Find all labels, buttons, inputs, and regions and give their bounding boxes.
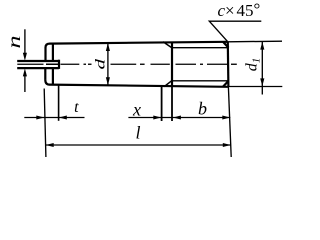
svg-text:t: t <box>74 99 79 116</box>
svg-text:b: b <box>198 99 207 119</box>
svg-text:x: x <box>132 100 141 120</box>
svg-text:d: d <box>92 59 108 70</box>
svg-text:n: n <box>4 35 24 48</box>
svg-text:l: l <box>135 123 140 143</box>
svg-text:c×45°: c×45° <box>218 0 261 20</box>
svg-text:d1: d1 <box>244 58 263 72</box>
